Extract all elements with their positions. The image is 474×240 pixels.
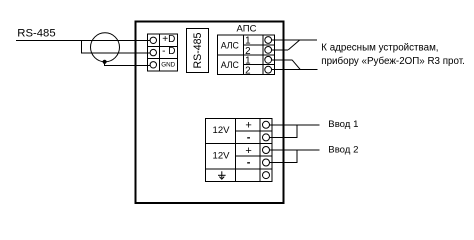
svg-text:К адресным устройствам,: К адресным устройствам, bbox=[321, 42, 438, 53]
device outline bbox=[136, 22, 284, 204]
wire Ввод2 plus bbox=[270, 149, 320, 151]
wire АЛС2 plus horizontal bbox=[272, 59, 292, 61]
terminal block АПС frame bbox=[218, 35, 275, 75]
svg-text:RS-485: RS-485 bbox=[17, 27, 55, 39]
terminal X1 pin 3 bbox=[150, 62, 156, 68]
svg-text:АПС: АПС bbox=[237, 24, 257, 35]
terminal block X1 frame bbox=[147, 34, 177, 71]
terminal АПС pin 2 bbox=[265, 47, 272, 54]
wire Ввод1 plus bbox=[270, 124, 320, 126]
svg-text:GND: GND bbox=[161, 61, 175, 68]
terminal 12V pin 4 bbox=[263, 159, 270, 166]
terminal 12V pin 3 bbox=[263, 147, 270, 154]
svg-text:+D: +D bbox=[162, 34, 175, 45]
wire RS-485 line B to -D bbox=[82, 41, 151, 54]
svg-text:-: - bbox=[247, 157, 251, 169]
terminal АПС pin 1 bbox=[265, 37, 272, 44]
svg-text:+: + bbox=[245, 120, 251, 132]
cable shield circle bbox=[91, 33, 120, 62]
svg-text:-: - bbox=[247, 131, 251, 143]
wire АЛС1 minus horizontal bbox=[272, 49, 289, 51]
terminal 12V pin 2 bbox=[263, 134, 270, 141]
wire Ввод1 minus bbox=[270, 125, 297, 138]
svg-text:Ввод 2: Ввод 2 bbox=[328, 144, 358, 155]
svg-text:12V: 12V bbox=[213, 150, 231, 161]
wire RS-485 line A to +D bbox=[16, 40, 150, 42]
wire АЛС2 minus bbox=[272, 69, 318, 71]
terminal X1 pin 1 bbox=[150, 37, 156, 43]
wire Ввод2 minus bbox=[270, 150, 297, 163]
terminal 12V pin 1 bbox=[263, 121, 270, 128]
svg-text:RS-485: RS-485 bbox=[192, 32, 204, 68]
terminal X1 pin 2 bbox=[150, 49, 156, 55]
RS-485 port box bbox=[187, 29, 209, 73]
svg-text:12V: 12V bbox=[213, 125, 231, 136]
svg-text:- D: - D bbox=[162, 46, 175, 57]
wire shield to GND bbox=[105, 62, 151, 66]
chassis ground symbol bbox=[218, 171, 226, 179]
terminal 12V pin 5 bbox=[263, 172, 270, 179]
wire АЛС1 plus bbox=[272, 39, 317, 41]
terminal block 12V frame bbox=[205, 119, 272, 182]
wire АЛС2 plus diagonal bbox=[292, 60, 300, 70]
terminal АПС pin 4 bbox=[265, 66, 272, 73]
svg-text:Ввод 1: Ввод 1 bbox=[328, 119, 358, 130]
junction dot shield bbox=[103, 60, 107, 64]
svg-text:2: 2 bbox=[245, 66, 250, 77]
svg-text:АЛС: АЛС bbox=[221, 40, 240, 50]
svg-text:+: + bbox=[245, 145, 251, 157]
terminal АПС pin 3 bbox=[265, 56, 272, 63]
svg-text:АЛС: АЛС bbox=[221, 60, 240, 70]
svg-text:прибору «Рубеж-2ОП» R3 прот.: прибору «Рубеж-2ОП» R3 прот. bbox=[321, 56, 465, 67]
wire АЛС1 minus diagonal bbox=[288, 40, 300, 50]
